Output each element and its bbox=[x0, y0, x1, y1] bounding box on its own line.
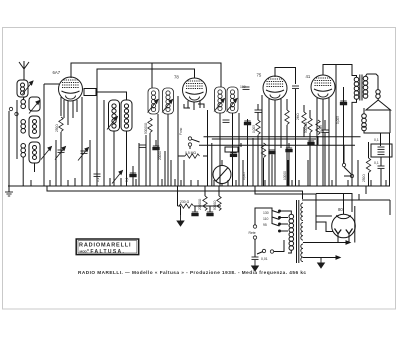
svg-text:Fono: Fono bbox=[179, 128, 183, 135]
svg-text:75: 75 bbox=[257, 73, 262, 78]
svg-text:0,5 MΩ: 0,5 MΩ bbox=[185, 151, 196, 155]
svg-text:0,1: 0,1 bbox=[125, 177, 129, 182]
svg-text:0,005: 0,005 bbox=[252, 125, 256, 133]
svg-text:41: 41 bbox=[306, 74, 311, 79]
svg-text:10000: 10000 bbox=[283, 171, 287, 180]
svg-text:130: 130 bbox=[263, 211, 269, 215]
svg-text:230 Ω: 230 Ω bbox=[180, 200, 190, 204]
svg-text:0,005: 0,005 bbox=[336, 116, 340, 124]
svg-text:°FALTUSA.: °FALTUSA. bbox=[87, 249, 125, 255]
svg-text:2MΩ: 2MΩ bbox=[296, 113, 300, 120]
svg-text:250Ω: 250Ω bbox=[55, 124, 59, 132]
svg-text:0,01: 0,01 bbox=[261, 257, 268, 261]
svg-text:5000Ω: 5000Ω bbox=[213, 200, 217, 210]
svg-text:80: 80 bbox=[338, 207, 343, 212]
svg-text:100: 100 bbox=[240, 85, 246, 89]
svg-text:0,1: 0,1 bbox=[96, 177, 100, 182]
svg-text:110: 110 bbox=[263, 217, 269, 221]
svg-text:0,1: 0,1 bbox=[374, 138, 379, 142]
svg-text:250Ω: 250Ω bbox=[362, 174, 366, 182]
svg-text:50000Ω: 50000Ω bbox=[144, 122, 148, 134]
svg-text:50000Ω: 50000Ω bbox=[304, 121, 308, 133]
svg-text:RADIO MARELLI. — Modello « Fal: RADIO MARELLI. — Modello « Faltusa » - P… bbox=[78, 270, 307, 275]
svg-text:20000: 20000 bbox=[158, 151, 162, 160]
svg-text:0,1: 0,1 bbox=[374, 161, 379, 165]
svg-text:Rete: Rete bbox=[249, 231, 256, 235]
svg-text:0,005: 0,005 bbox=[319, 125, 323, 133]
svg-text:20000Ω: 20000Ω bbox=[198, 198, 202, 210]
svg-text:95: 95 bbox=[263, 223, 267, 227]
svg-text:6A7: 6A7 bbox=[53, 70, 61, 75]
svg-text:RADIOMARELLI: RADIOMARELLI bbox=[79, 243, 131, 249]
svg-text:0,005: 0,005 bbox=[242, 172, 246, 180]
svg-text:78: 78 bbox=[174, 75, 179, 80]
